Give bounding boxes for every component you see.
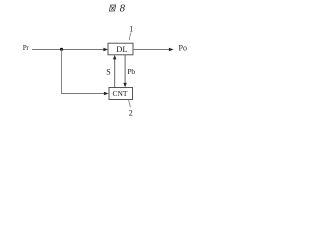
- wire DL to Po: [133, 49, 169, 51]
- leader to ref 2: [129, 100, 131, 107]
- block DL: [108, 43, 133, 55]
- title glyph 図 (drawn box with X): [109, 5, 115, 11]
- svg-text:Pb: Pb: [127, 67, 135, 76]
- arrowhead into DL: [103, 48, 108, 52]
- leader to ref 1: [129, 33, 131, 41]
- svg-text:8: 8: [120, 3, 126, 15]
- svg-text:1: 1: [129, 24, 133, 33]
- wire S (CNT to DL): [114, 59, 116, 88]
- node junction dot: [60, 48, 63, 51]
- wire Pb (DL to CNT): [124, 55, 126, 83]
- svg-text:Pr: Pr: [23, 44, 30, 52]
- svg-text:Po: Po: [179, 44, 187, 53]
- svg-text:CNT: CNT: [113, 89, 128, 98]
- block CNT: [109, 88, 133, 100]
- svg-text:S: S: [106, 68, 110, 77]
- arrowhead at Po: [169, 48, 174, 52]
- arrowhead Pb into CNT: [123, 83, 126, 88]
- svg-text:2: 2: [129, 109, 133, 118]
- wire feedback (node to CNT): [62, 50, 105, 94]
- wire Pr to DL: [32, 49, 104, 51]
- arrowhead into CNT: [104, 92, 109, 96]
- arrowhead S into DL: [113, 55, 116, 60]
- svg-text:DL: DL: [116, 44, 127, 54]
